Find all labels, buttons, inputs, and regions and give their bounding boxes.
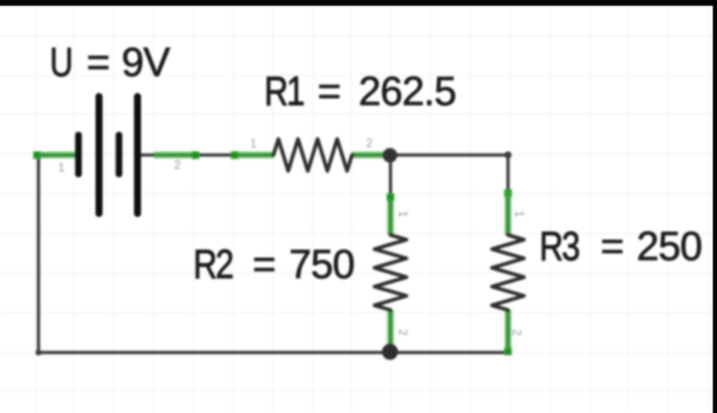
- svg-text:2: 2: [174, 158, 181, 172]
- wire: left loop from node A down and along bottom: [39, 156, 508, 353]
- svg-text:U: U: [50, 40, 72, 85]
- svg-text:2: 2: [396, 329, 410, 336]
- svg-text:R2: R2: [193, 241, 232, 287]
- svg-text:=9V: =9V: [87, 39, 171, 85]
- wire: node B to R3 top corner: [390, 155, 508, 194]
- green pin stubs: [34, 155, 508, 351]
- svg-text:=262.5: =262.5: [318, 68, 456, 114]
- svg-text:2: 2: [510, 329, 524, 336]
- svg-text:=250: =250: [601, 223, 702, 269]
- resistor R3 zigzag: [492, 235, 524, 310]
- corner joint at R3 top: [504, 151, 511, 158]
- R1 pin 2 stub: [352, 153, 384, 158]
- svg-text:1: 1: [513, 211, 527, 218]
- svg-text:2: 2: [366, 136, 373, 150]
- wire: node B down to R2 pin1: [389, 155, 392, 197]
- svg-text:1: 1: [250, 137, 257, 151]
- R1 pin 1 stub: [234, 153, 274, 158]
- svg-text:=750: =750: [253, 241, 355, 287]
- battery U1: [79, 97, 138, 214]
- wire: between battery pin2 and R1 pin1: [196, 153, 234, 156]
- resistor R2 zigzag: [375, 235, 407, 310]
- svg-text:1: 1: [58, 161, 65, 175]
- battery pin 2 stub: [154, 153, 196, 158]
- R2 pin 1 stub: [388, 197, 393, 235]
- R3 pin 1 stub: [506, 193, 511, 235]
- junction node B (top): [383, 148, 398, 163]
- R2 pin 2 stub: [388, 310, 393, 345]
- svg-text:R1: R1: [264, 68, 303, 114]
- svg-text:1: 1: [396, 211, 410, 218]
- right border: [713, 0, 717, 413]
- resistor R1 zigzag: [274, 139, 353, 171]
- green connection nodes: [33, 151, 512, 355]
- junction node C (bottom): [382, 344, 398, 360]
- battery pin 1 stub: [34, 153, 78, 158]
- corner joint bottom-left: [36, 350, 42, 356]
- R3 pin 2 stub: [506, 310, 511, 351]
- wire: battery lead to pin2 stub: [140, 153, 156, 156]
- pin number labels: [58, 136, 527, 336]
- svg-text:R3: R3: [539, 223, 578, 269]
